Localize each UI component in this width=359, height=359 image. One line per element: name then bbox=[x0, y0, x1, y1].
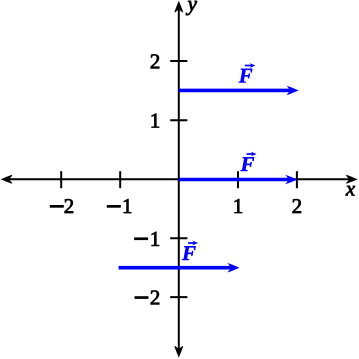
tick x=-2 bbox=[60, 171, 62, 188]
vector F3 (from (-1,-1.5) to (1,-1.5)) bbox=[119, 263, 240, 273]
label 2 (y-axis) bbox=[151, 54, 159, 68]
x-axis label x bbox=[346, 186, 355, 196]
tick x=2 bbox=[296, 171, 298, 188]
tick x=-1 bbox=[119, 171, 121, 188]
x-axis bbox=[2, 175, 357, 183]
label -1 (y-axis) bbox=[135, 232, 160, 246]
tick x=1 bbox=[237, 171, 239, 188]
label F2 (vector F over middle vector) bbox=[240, 152, 256, 171]
vector F1 (from (0,1.5) to (2,1.5)) bbox=[179, 86, 299, 96]
tick y=1 bbox=[170, 119, 187, 121]
label -2 (y-axis) bbox=[135, 291, 159, 305]
label 1 (x-axis) bbox=[235, 199, 242, 213]
label -2 (x-axis) bbox=[50, 199, 73, 213]
label F3 (vector F over bottom vector) bbox=[182, 241, 198, 260]
tick y=-1 bbox=[170, 237, 187, 239]
label -1 (x-axis) bbox=[107, 199, 131, 213]
y-axis bbox=[175, 2, 183, 357]
vector F2 (from (0,0) to (2,0)) bbox=[179, 175, 298, 185]
label 1 (y-axis) bbox=[152, 114, 159, 128]
label F1 (vector F over top vector) bbox=[239, 63, 256, 82]
y-axis label y bbox=[186, 1, 197, 15]
tick y=2 bbox=[170, 60, 187, 62]
label 2 (x-axis) bbox=[293, 199, 301, 213]
tick y=-2 bbox=[170, 296, 187, 298]
